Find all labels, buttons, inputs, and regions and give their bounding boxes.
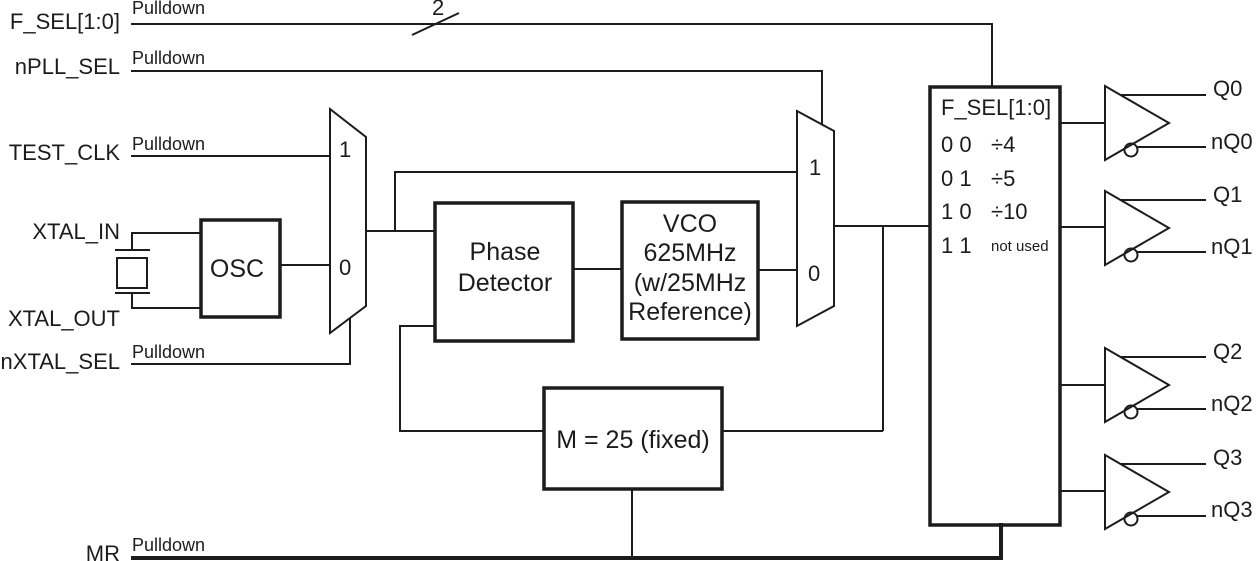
svg-text:F_SEL[1:0]: F_SEL[1:0]	[10, 9, 120, 34]
wire feedback to M divider	[722, 430, 883, 432]
buffer Q2	[1105, 348, 1206, 422]
svg-text:not used: not used	[991, 238, 1049, 255]
svg-text:nQ0: nQ0	[1211, 129, 1253, 154]
svg-text:MR: MR	[86, 541, 120, 561]
wire nPLL_SEL	[131, 71, 822, 125]
svg-text:XTAL_IN: XTAL_IN	[32, 219, 120, 244]
svg-text:Q2: Q2	[1213, 339, 1242, 364]
wire M divider to Phase Detector	[400, 326, 544, 431]
svg-text:÷4: ÷4	[991, 132, 1015, 157]
svg-text:0 1: 0 1	[941, 166, 972, 191]
buffer Q3	[1105, 455, 1206, 529]
wire feedback tap down	[882, 226, 884, 431]
wire mux2 output to divider box	[834, 225, 930, 227]
wire divider to buffer1	[1060, 122, 1105, 124]
svg-text:1: 1	[809, 155, 821, 180]
buffer Q1	[1105, 191, 1206, 265]
svg-text:OSC: OSC	[210, 255, 264, 283]
svg-text:Pulldown: Pulldown	[132, 0, 205, 18]
svg-text:0 0: 0 0	[941, 132, 972, 157]
box Phase Detector	[435, 203, 573, 341]
wire TEST_CLK	[131, 155, 330, 157]
svg-text:÷5: ÷5	[991, 166, 1015, 191]
box output divider F_SEL	[930, 87, 1060, 525]
wire divider to buffer3	[1060, 384, 1105, 386]
svg-text:Pulldown: Pulldown	[132, 342, 205, 362]
wire Phase Detector to VCO	[573, 268, 622, 270]
svg-text:XTAL_OUT: XTAL_OUT	[8, 306, 120, 331]
wire mux1 output to Phase Detector	[366, 230, 435, 232]
box M divider	[544, 388, 722, 489]
svg-text:Reference): Reference)	[628, 298, 752, 326]
svg-text:Q1: Q1	[1213, 182, 1242, 207]
svg-text:Pulldown: Pulldown	[132, 48, 205, 68]
wire VCO to mux2 input 0	[758, 269, 797, 271]
svg-text:nQ3: nQ3	[1211, 497, 1253, 522]
mux U3 PLL bypass select	[797, 111, 834, 326]
svg-text:0: 0	[808, 261, 820, 286]
svg-text:2: 2	[432, 0, 444, 20]
bus width slash	[412, 13, 459, 35]
wire divider to buffer2	[1060, 226, 1105, 228]
svg-text:Q3: Q3	[1213, 445, 1242, 470]
svg-text:(w/25MHz: (w/25MHz	[634, 269, 747, 297]
svg-text:Q0: Q0	[1213, 76, 1242, 101]
mux U2 input select	[330, 109, 366, 333]
svg-text:0: 0	[339, 255, 351, 280]
wire XTAL_IN	[132, 233, 201, 250]
wire OSC to mux0	[280, 264, 330, 266]
svg-text:Detector: Detector	[458, 269, 552, 297]
buffer Q0	[1105, 86, 1206, 160]
svg-text:Pulldown: Pulldown	[132, 134, 205, 154]
svg-text:nQ1: nQ1	[1211, 234, 1253, 259]
wire XTAL_OUT	[132, 293, 201, 308]
svg-text:1: 1	[339, 137, 351, 162]
svg-text:nPLL_SEL: nPLL_SEL	[15, 54, 120, 79]
svg-text:Phase: Phase	[470, 238, 541, 266]
svg-text:F_SEL[1:0]: F_SEL[1:0]	[941, 95, 1051, 120]
wire F_SEL bus top	[131, 24, 992, 87]
svg-text:M = 25 (fixed): M = 25 (fixed)	[556, 426, 710, 454]
svg-text:1 1: 1 1	[941, 233, 972, 258]
svg-text:Pulldown: Pulldown	[132, 535, 205, 555]
svg-text:1 0: 1 0	[941, 199, 972, 224]
crystal Y1	[115, 250, 150, 293]
box OSC U1	[201, 220, 280, 317]
svg-text:÷10: ÷10	[991, 199, 1028, 224]
svg-text:nXTAL_SEL: nXTAL_SEL	[1, 349, 120, 374]
wire divider to buffer4	[1060, 490, 1105, 492]
wire nXTAL_SEL	[131, 318, 350, 364]
svg-text:625MHz: 625MHz	[643, 239, 736, 267]
wire node A up to PLL bypass	[395, 172, 797, 231]
wire MR	[131, 523, 1001, 558]
svg-text:nQ2: nQ2	[1211, 391, 1253, 416]
wire M divider bottom to MR	[631, 489, 633, 556]
svg-text:TEST_CLK: TEST_CLK	[9, 140, 121, 165]
box VCO	[622, 202, 758, 339]
svg-text:VCO: VCO	[663, 210, 717, 238]
